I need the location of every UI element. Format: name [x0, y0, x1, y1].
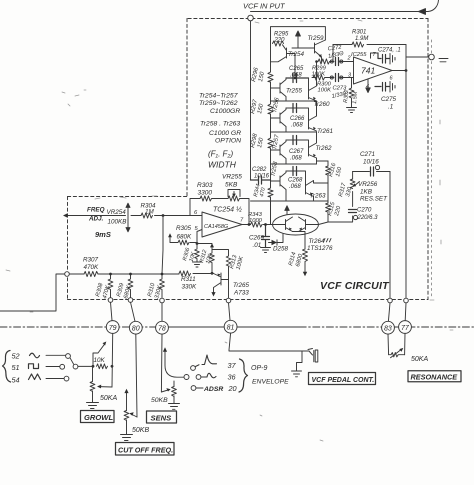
transistor Tr263	[306, 181, 329, 202]
wire square	[46, 366, 60, 368]
label R312 10K	[199, 249, 213, 264]
svg-text:SENS: SENS	[151, 414, 172, 423]
contact env 36	[196, 375, 201, 380]
svg-text:51: 51	[12, 363, 20, 372]
wire res-set loop	[328, 172, 353, 223]
label C273 330	[331, 86, 347, 100]
wire cutoff arrow up	[126, 392, 128, 411]
node R304 junction	[162, 214, 165, 217]
wire input left stub	[66, 215, 126, 217]
wire stem 83 down	[387, 334, 390, 355]
svg-text:.068: .068	[290, 156, 302, 162]
dashed enclosure bottom edge	[68, 299, 429, 301]
svg-text:5KB: 5KB	[225, 182, 238, 189]
svg-text:741: 741	[361, 66, 375, 76]
resistor R305	[170, 236, 197, 245]
node growl wire junction	[111, 365, 113, 367]
wire R313 jog	[212, 250, 229, 257]
svg-text:TC254 ½: TC254 ½	[213, 206, 242, 214]
svg-text:A733: A733	[233, 290, 249, 297]
wire feedback top	[333, 44, 406, 46]
label Tr group note	[199, 93, 241, 170]
connector 83	[382, 321, 395, 334]
node output terminal	[429, 54, 435, 60]
svg-text:Tr262: Tr262	[316, 145, 332, 152]
label R295 220	[274, 32, 290, 44]
label R344 470	[253, 183, 267, 197]
node R309 junction	[129, 273, 132, 276]
transistor Tr259	[315, 40, 326, 62]
wire stem 79 up	[111, 302, 113, 320]
node input terminal	[248, 15, 254, 21]
label R313 100K	[229, 254, 245, 271]
resistor R312	[210, 246, 215, 273]
transistor Tr254	[271, 45, 296, 78]
connector 78	[156, 321, 169, 334]
svg-text:Tr263: Tr263	[310, 193, 326, 200]
label R306 10K	[182, 246, 197, 262]
resistor R297	[268, 104, 273, 114]
svg-text:R301: R301	[352, 30, 366, 36]
capacitor C265	[286, 74, 309, 83]
capacitor C273	[336, 74, 339, 82]
capacitor C268	[293, 167, 297, 176]
dual transistor Tr264 oval	[273, 214, 319, 235]
node pole junction	[92, 365, 95, 368]
svg-text:RES.SET: RES.SET	[360, 196, 388, 203]
capacitor C267	[293, 136, 297, 145]
svg-text:C269: C269	[249, 235, 265, 242]
transistor Tr264a	[273, 217, 293, 232]
capacitor C282	[251, 176, 271, 184]
wire input line	[251, 11, 420, 13]
label C268 .068	[288, 178, 303, 191]
svg-text:C266: C266	[290, 116, 305, 122]
box GROWL	[81, 411, 115, 423]
dashed enclosure top edge	[188, 18, 428, 20]
svg-text:220: 220	[274, 38, 286, 44]
capacitor C266	[293, 104, 297, 113]
wire right chain seg	[316, 101, 318, 164]
jack sleeve	[315, 350, 318, 362]
svg-text:VCF PEDAL CONT.: VCF PEDAL CONT.	[312, 377, 375, 384]
contact pole	[73, 364, 78, 369]
capacitor C274	[378, 53, 390, 63]
wire C271 top	[353, 171, 390, 173]
transistor Tr265	[214, 273, 229, 294]
svg-text:50KA: 50KA	[100, 395, 117, 402]
node border junction	[65, 272, 70, 277]
svg-text:(F₁. F₂): (F₁. F₂)	[208, 150, 233, 159]
svg-text:R302: R302	[343, 90, 350, 104]
wire stem 77 down	[404, 333, 406, 354]
svg-text:IC255: IC255	[351, 52, 367, 58]
resistor R303	[200, 196, 212, 201]
input arrowhead	[419, 9, 426, 15]
transistor Tr255	[271, 78, 287, 101]
label C282 10/16	[252, 167, 270, 180]
resistor R343	[251, 222, 262, 227]
node C273 right donut	[340, 76, 343, 79]
potentiometer VR255	[228, 190, 240, 202]
svg-text:470: 470	[259, 186, 267, 197]
svg-text:C270: C270	[357, 208, 372, 214]
label R317 330	[338, 182, 353, 198]
svg-text:150: 150	[257, 103, 265, 115]
svg-text:OPTION: OPTION	[215, 138, 241, 145]
label FREQ ADJ.	[87, 207, 105, 223]
node R310 junction	[161, 273, 164, 276]
svg-text:VR255: VR255	[222, 174, 242, 181]
label R314 6800	[288, 252, 304, 268]
wire bottom long	[251, 200, 329, 202]
wire stem 83 up	[388, 303, 390, 322]
resistor R310	[160, 274, 165, 298]
label R301 1.9M	[352, 30, 368, 43]
contact env 37	[191, 366, 196, 371]
wire stem 81 up	[229, 303, 231, 321]
svg-text:R311: R311	[181, 276, 196, 283]
label VR255 5KB	[222, 174, 242, 189]
label R343 1000	[248, 212, 263, 224]
svg-text:Tr259: Tr259	[308, 35, 324, 42]
resistor R307	[84, 271, 98, 276]
svg-text:C274, .1: C274, .1	[378, 48, 401, 54]
resistor R295	[273, 41, 284, 46]
node pin2 chain junction	[315, 60, 318, 63]
svg-text:150: 150	[335, 166, 343, 178]
svg-text:ADJ.: ADJ.	[88, 216, 104, 223]
label R308 470K	[95, 282, 112, 300]
box SENS	[147, 411, 177, 423]
wire stem 79 down	[111, 334, 114, 388]
label C272 33	[327, 45, 344, 60]
wire adsr	[196, 387, 203, 389]
glyph ar	[201, 373, 216, 377]
svg-text:1.9M: 1.9M	[355, 36, 368, 42]
svg-text:Tr260: Tr260	[314, 101, 330, 108]
potentiometer 50KB sens	[161, 387, 176, 404]
node R310 border	[160, 298, 165, 303]
svg-text:.068: .068	[291, 123, 303, 129]
node Tr265 border	[226, 298, 231, 303]
node output junction	[405, 69, 408, 72]
svg-text:C268: C268	[288, 178, 303, 184]
label R310 330K	[147, 282, 164, 300]
ground C274	[390, 54, 395, 65]
wire secondary3	[271, 163, 317, 165]
label R296 150	[251, 66, 266, 82]
node output TC254	[248, 223, 251, 226]
node C272 left donut	[330, 60, 333, 63]
label C266 .068	[290, 116, 305, 129]
svg-text:D258: D258	[273, 246, 289, 253]
svg-text:ADSR: ADSR	[203, 386, 223, 393]
svg-text:VCF CIRCUIT: VCF CIRCUIT	[320, 280, 390, 292]
resistor 10K	[97, 364, 108, 369]
svg-text:Tr254: Tr254	[288, 51, 304, 58]
wire VR254 drop	[162, 216, 163, 275]
svg-text:50KB: 50KB	[132, 427, 149, 434]
label R315 220	[327, 201, 342, 218]
label C265 .068	[289, 66, 304, 78]
ground C269	[261, 248, 271, 253]
wire stage1	[286, 78, 309, 89]
ground C275	[390, 82, 395, 93]
svg-text:100K: 100K	[318, 88, 333, 94]
svg-text:C265: C265	[289, 66, 304, 72]
label C271 10/16	[360, 151, 379, 166]
resistor R304	[141, 213, 153, 218]
capacitor C270	[349, 210, 357, 213]
node 10K junction	[111, 365, 114, 368]
label R300 100K	[317, 82, 332, 94]
potentiometer 50KA resonance	[389, 350, 405, 358]
svg-text:2: 2	[347, 56, 351, 62]
svg-text:C1000 GR: C1000 GR	[209, 130, 241, 137]
wire growl top	[92, 366, 95, 378]
potentiometer VR254	[126, 203, 130, 232]
tick marks	[323, 239, 331, 242]
resistor R315	[326, 203, 331, 212]
bus solid segment right of 81	[237, 326, 300, 328]
transistor Tr260	[309, 62, 317, 102]
svg-text:10/16: 10/16	[254, 174, 270, 180]
svg-text:1TS1276: 1TS1276	[307, 245, 333, 252]
dashed enclosure left upper edge	[186, 19, 188, 197]
resistor R313	[226, 256, 231, 280]
wire pair tail	[293, 232, 306, 250]
label C269 .01	[249, 235, 265, 250]
label C270 220/6.3	[357, 208, 379, 222]
connector 79	[106, 321, 119, 334]
svg-text:CUT OFF FREQ.: CUT OFF FREQ.	[118, 446, 173, 455]
wire input drop	[250, 21, 252, 180]
wire output feedback vertical	[405, 45, 407, 299]
wire TC254 output to pair	[242, 224, 273, 226]
wire stem 78 up	[161, 303, 163, 322]
wire pole	[78, 365, 93, 367]
sine glyph	[30, 353, 40, 358]
brace waveform	[3, 351, 11, 383]
svg-text:RESONANCE: RESONANCE	[411, 373, 459, 382]
label R311 330K	[181, 276, 197, 291]
wire right rail top link	[317, 160, 329, 162]
svg-text:C271: C271	[360, 151, 375, 158]
capacitor C272	[336, 58, 339, 66]
label R309 680K	[116, 282, 133, 300]
wire feedback TC254	[190, 199, 249, 225]
svg-text:Tr261: Tr261	[317, 128, 333, 135]
dashed enclosure left lower edge	[67, 197, 69, 300]
glyph spike	[196, 355, 217, 367]
wire left entry	[0, 274, 65, 311]
bus dash-dot line	[0, 326, 474, 328]
pair top arrow	[285, 206, 289, 215]
node C273 left donut	[330, 76, 333, 79]
ground R302	[347, 103, 357, 113]
svg-text:1000: 1000	[249, 218, 263, 224]
wire stem 78 down	[160, 334, 163, 392]
svg-text:50KB: 50KB	[151, 397, 168, 404]
svg-text:.068: .068	[289, 184, 301, 190]
wire input curve	[424, 0, 439, 12]
contact env adsr	[191, 386, 196, 391]
svg-text:37: 37	[228, 361, 237, 370]
label R297 150	[250, 98, 265, 114]
wire triangle	[46, 378, 64, 380]
svg-text:VR254: VR254	[107, 209, 127, 216]
node pin5 junction	[196, 242, 199, 245]
wire rail to pair	[270, 201, 272, 225]
transistor Tr264b	[299, 217, 319, 232]
ground sens	[169, 404, 180, 410]
contact sine	[66, 354, 71, 359]
polarity C270	[353, 215, 357, 219]
wire growl arrow	[93, 344, 105, 367]
svg-text:Tr264: Tr264	[309, 238, 325, 245]
svg-text:470K: 470K	[84, 264, 100, 271]
transistor Tr256	[271, 108, 287, 132]
svg-text:220/6.3: 220/6.3	[357, 215, 379, 221]
label R298 150	[250, 132, 265, 148]
svg-text:83: 83	[384, 326, 392, 333]
box VCF PEDAL CONT	[309, 373, 376, 385]
svg-text:52: 52	[12, 352, 20, 361]
wire stage2	[286, 108, 309, 119]
svg-text:150: 150	[257, 137, 265, 149]
wire sine	[46, 354, 66, 356]
dashed enclosure right edge	[427, 19, 429, 300]
transistor Tr261	[309, 101, 317, 131]
svg-text:Tr257: Tr257	[272, 134, 281, 151]
svg-text:9mS: 9mS	[95, 230, 111, 239]
transistor Tr262	[309, 132, 317, 158]
node R309 border	[128, 298, 133, 303]
supply arrow	[296, 31, 301, 48]
box RESONANCE	[408, 371, 461, 382]
svg-text:C267: C267	[289, 149, 304, 155]
square glyph	[29, 364, 39, 369]
svg-text:54: 54	[12, 376, 20, 385]
svg-text:50KA: 50KA	[411, 356, 428, 363]
svg-text:Tr258 . Tr263: Tr258 . Tr263	[200, 121, 240, 128]
switch pole arm	[70, 358, 74, 365]
connector 77	[399, 321, 412, 334]
svg-text:79: 79	[109, 325, 117, 332]
wire left rail segments	[270, 44, 272, 225]
ground cutoff	[121, 435, 133, 441]
svg-text:Tr259~Tr262: Tr259~Tr262	[199, 100, 238, 107]
resistor R296	[268, 72, 273, 82]
wire pin4 arrow	[366, 79, 370, 93]
svg-text:VR256: VR256	[358, 181, 378, 188]
svg-text:1M: 1M	[145, 209, 155, 216]
resistor R298	[268, 138, 273, 148]
svg-text:VCF IN PUT: VCF IN PUT	[243, 2, 286, 11]
resistor R301	[352, 42, 364, 47]
diode D258	[269, 234, 284, 245]
svg-text:77: 77	[401, 325, 410, 332]
potentiometer 50KB cutoff	[124, 411, 137, 435]
svg-text:C1000GR: C1000GR	[210, 108, 240, 115]
wire secondary1	[271, 100, 317, 102]
wire jack ground	[297, 351, 303, 371]
label R307 470K	[83, 257, 99, 272]
wire right rail x328	[327, 161, 329, 222]
wire R313 to node	[228, 280, 230, 299]
dashed enclosure jog edge	[68, 196, 188, 198]
label R303 3300	[197, 182, 213, 197]
svg-text:10K: 10K	[189, 251, 197, 262]
svg-text:C282: C282	[252, 167, 267, 173]
svg-text:WIDTH: WIDTH	[208, 160, 237, 170]
wire sens top	[173, 381, 175, 387]
svg-text:3300: 3300	[198, 190, 213, 197]
node C272 right donut	[340, 60, 343, 63]
svg-text:78: 78	[158, 326, 166, 333]
label R304 1M	[141, 203, 157, 216]
svg-text:R303: R303	[197, 182, 213, 189]
resistor R300	[313, 75, 325, 80]
wire env arrow	[165, 350, 184, 377]
label R305 680K	[176, 225, 192, 241]
svg-text:7: 7	[240, 218, 244, 224]
svg-text:1.5M: 1.5M	[352, 91, 359, 104]
triangle glyph	[29, 374, 41, 380]
transistor Tr257	[271, 140, 287, 164]
svg-text:C275: C275	[381, 96, 397, 103]
resistor R311	[179, 271, 191, 276]
wire stem 81 down	[229, 333, 309, 351]
transistor Tr258	[271, 171, 287, 201]
ground growl	[87, 403, 99, 409]
svg-text:.01: .01	[253, 242, 262, 249]
label VR254 100KB	[107, 209, 127, 226]
capacitor C269	[262, 225, 270, 248]
svg-text:GROWL: GROWL	[84, 413, 113, 422]
wire top box	[271, 27, 326, 44]
wire vertical to 83	[389, 172, 391, 299]
svg-text:680K: 680K	[177, 234, 193, 241]
svg-text:Tr256: Tr256	[272, 97, 281, 114]
svg-text:10K: 10K	[94, 357, 106, 364]
svg-text:.068: .068	[290, 72, 302, 78]
svg-text:20: 20	[228, 384, 237, 393]
label VR256 1KB RES.SET	[358, 181, 388, 203]
contact env pole	[184, 375, 189, 380]
op-amp TC254	[202, 212, 242, 237]
dashed enclosure right edge smudge	[431, 40, 433, 296]
node R308 border	[108, 298, 113, 303]
wire stem 80 down	[136, 334, 137, 417]
svg-text:.1: .1	[388, 104, 393, 111]
svg-text:100KB: 100KB	[108, 219, 127, 226]
svg-text:10/16: 10/16	[363, 159, 379, 166]
svg-text:Tr258: Tr258	[271, 161, 280, 178]
svg-text:330K: 330K	[182, 284, 198, 291]
svg-text:CA1458G: CA1458G	[204, 224, 229, 230]
svg-text:6: 6	[390, 76, 394, 82]
node C269 junction	[264, 223, 267, 226]
svg-text:150: 150	[258, 71, 266, 83]
wire pin3 input	[312, 77, 354, 79]
wire stem 80 up	[131, 302, 136, 321]
svg-text:FREQ: FREQ	[87, 207, 105, 214]
wire pair to rail right	[319, 222, 329, 225]
svg-text:ENVELOPE: ENVELOPE	[252, 379, 289, 386]
svg-text:80: 80	[132, 326, 140, 333]
